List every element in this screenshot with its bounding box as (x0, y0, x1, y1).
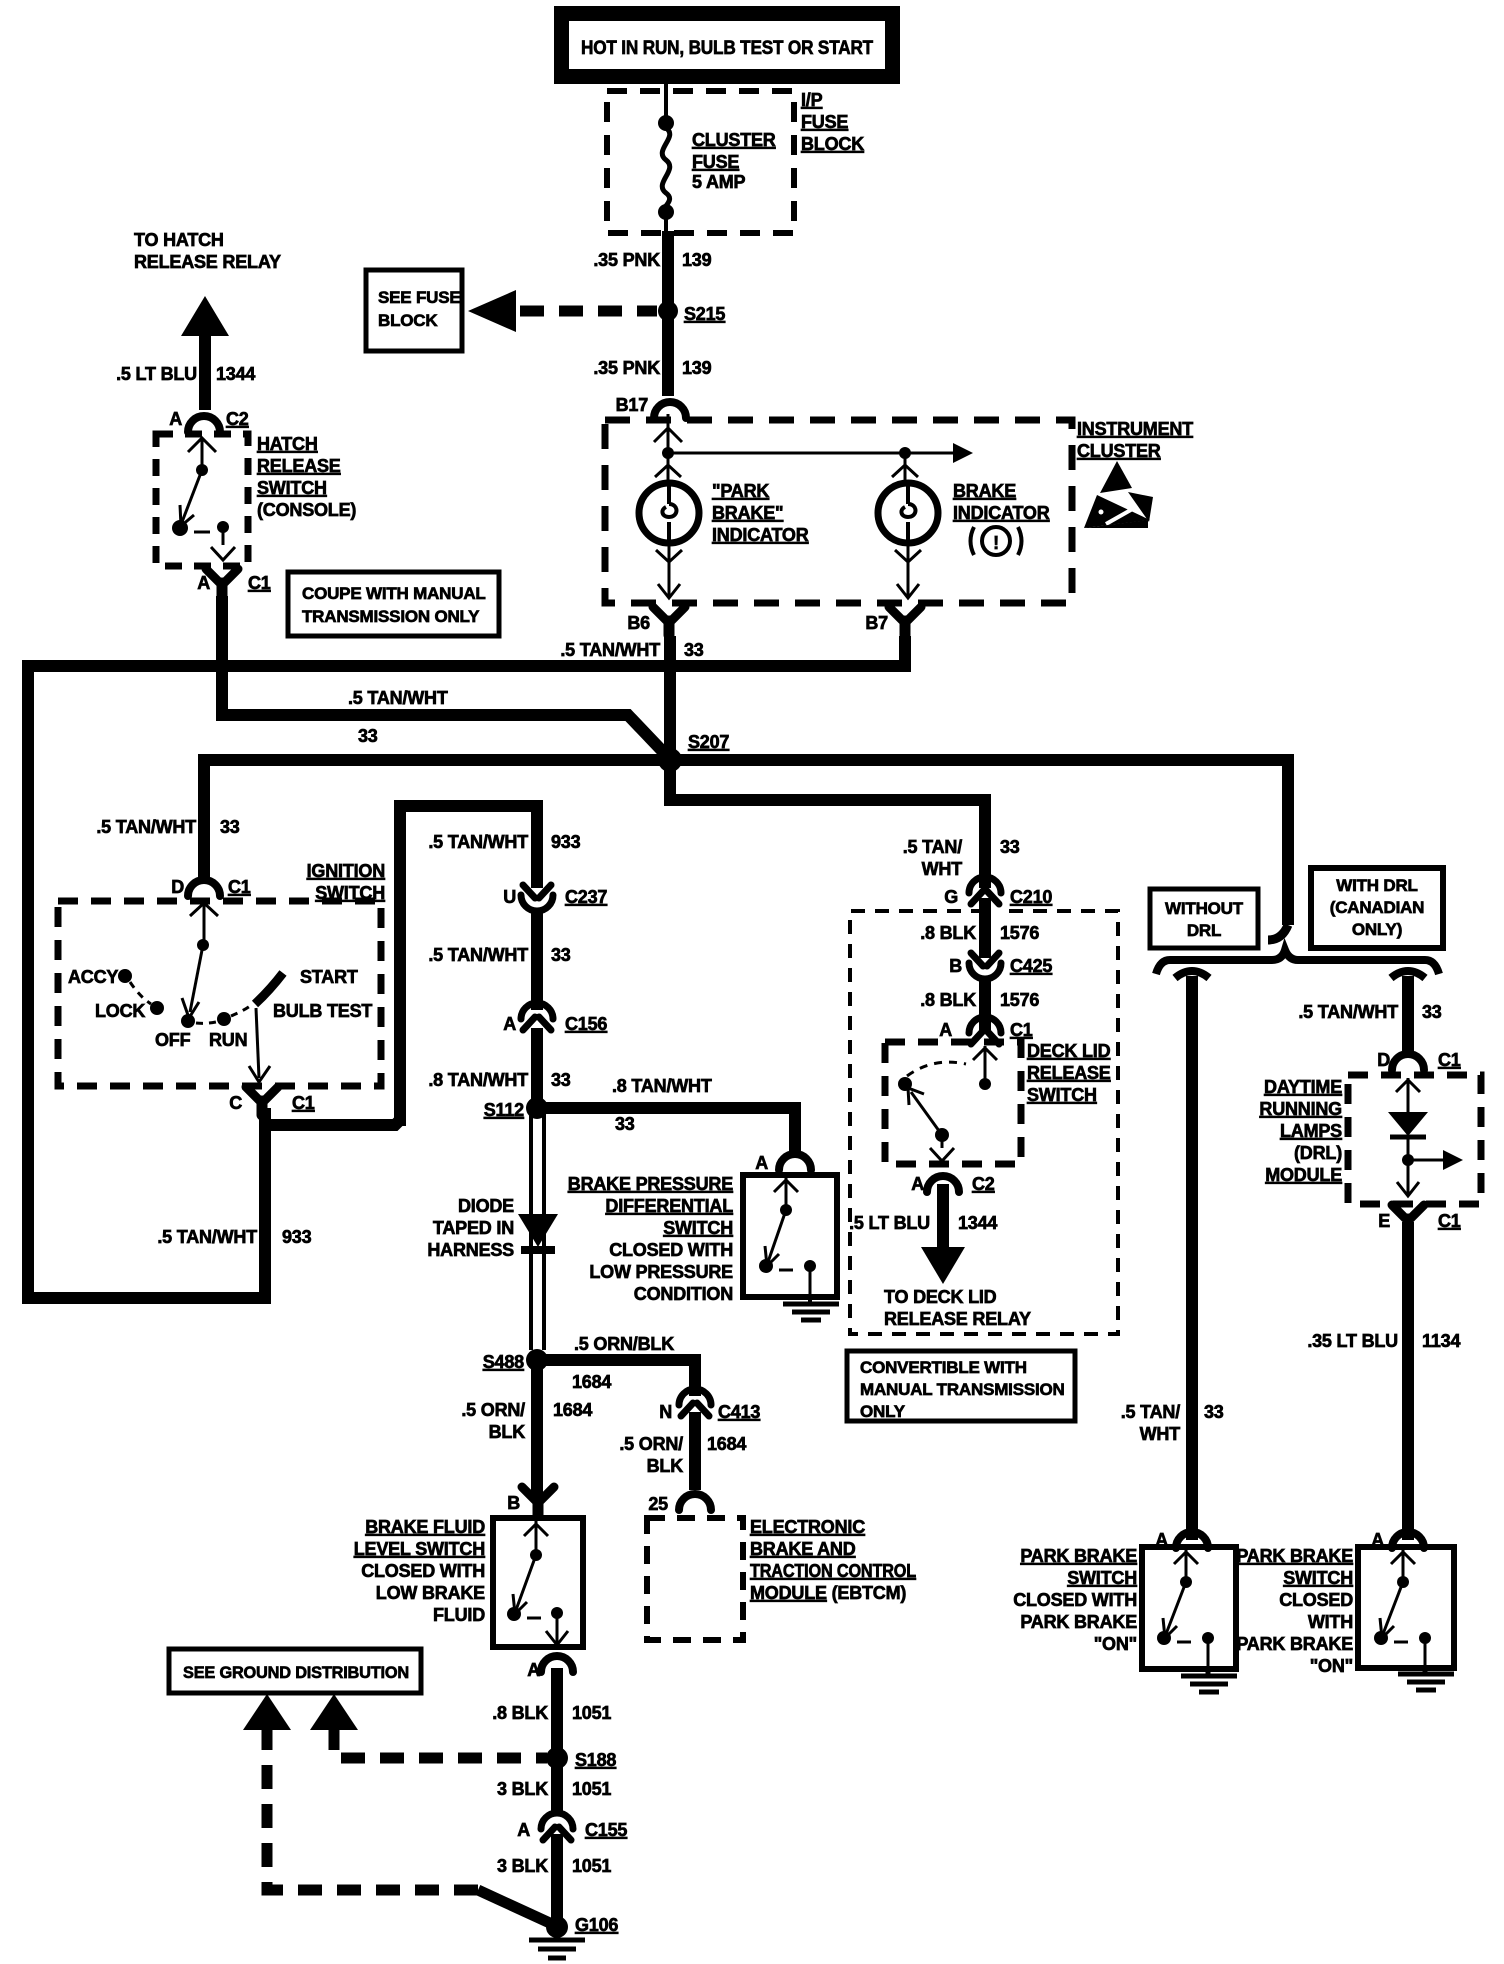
wire left loop down to ignition C (28, 660, 265, 1298)
svg-text:"ON": "ON" (1094, 1634, 1137, 1654)
label "PARK BRAKE" INDICATOR (712, 481, 809, 545)
label ELECTRONIC BRAKE AND TRACTION CONTROL MODULE (EBTCM) (750, 1517, 916, 1603)
svg-text:SEE FUSE: SEE FUSE (378, 288, 460, 307)
connector C C1 ignition (229, 1087, 315, 1115)
svg-text:C1: C1 (292, 1093, 315, 1113)
svg-text:S112: S112 (484, 1100, 524, 1120)
instrument cluster dashed box (605, 420, 1072, 603)
svg-text:C210: C210 (1010, 887, 1052, 907)
connector N C413 (659, 1389, 760, 1422)
wire hatch to S207 horizontal (222, 715, 668, 757)
label .35 PNK 139 lower (593, 358, 711, 378)
label I/P FUSE BLOCK (801, 90, 864, 154)
svg-text:C2: C2 (226, 409, 249, 429)
svg-text:.5 ORN/BLK: .5 ORN/BLK (574, 1334, 674, 1354)
svg-text:A: A (939, 1020, 952, 1040)
box brake fluid level switch (493, 1518, 583, 1647)
wire S488 down to brake fluid switch (531, 1366, 543, 1498)
connector A brake fluid switch (527, 1656, 573, 1680)
DRL module dashed box (1348, 1075, 1481, 1204)
svg-text:C2: C2 (972, 1174, 995, 1194)
connector C1 hatch (197, 569, 271, 597)
box COUPE WITH MANUAL TRANSMISSION ONLY (288, 572, 499, 636)
convertible section dashed outline (850, 911, 1118, 1334)
dashed wire left arrow to G106 (267, 1726, 480, 1890)
splice S215 (658, 301, 678, 321)
svg-text:G106: G106 (575, 1915, 618, 1935)
node junction at park brake bulb (662, 447, 674, 459)
svg-text:!: ! (993, 533, 999, 553)
svg-text:C1: C1 (1010, 1020, 1033, 1040)
svg-text:N: N (659, 1402, 672, 1422)
svg-text:BLOCK: BLOCK (378, 311, 438, 330)
svg-text:(CONSOLE): (CONSOLE) (257, 500, 356, 520)
svg-text:DAYTIME: DAYTIME (1264, 1077, 1342, 1097)
ground G106 (546, 1916, 568, 1938)
label .5 ORN/ BLK 1684 right (619, 1434, 746, 1476)
hatch release switch contacts (172, 438, 235, 560)
splice S207 (658, 748, 682, 772)
svg-text:1684: 1684 (553, 1400, 592, 1420)
svg-text:.5 TAN/: .5 TAN/ (1121, 1402, 1180, 1422)
svg-text:TO HATCH: TO HATCH (134, 230, 224, 250)
svg-text:139: 139 (682, 358, 712, 378)
splice S488 (526, 1349, 548, 1371)
svg-text:CONVERTIBLE WITH: CONVERTIBLE WITH (860, 1358, 1027, 1377)
ground symbol park brake right (1398, 1667, 1454, 1690)
dashed wire S215 to fuse block arrow (520, 306, 657, 317)
svg-text:33: 33 (615, 1114, 635, 1134)
svg-text:I/P: I/P (801, 90, 823, 110)
svg-text:.5 ORN/: .5 ORN/ (619, 1434, 683, 1454)
svg-text:CLUSTER: CLUSTER (1077, 441, 1161, 461)
splice S188 (546, 1747, 568, 1769)
svg-text:.5 TAN/WHT: .5 TAN/WHT (157, 1227, 257, 1247)
svg-text:WHT: WHT (922, 859, 963, 879)
wire S207 to ignition D (204, 760, 663, 880)
svg-text:SWITCH: SWITCH (1067, 1568, 1137, 1588)
ground symbol brake pressure switch (783, 1297, 839, 1320)
svg-text:WHT: WHT (1140, 1424, 1181, 1444)
svg-text:SEE GROUND DISTRIBUTION: SEE GROUND DISTRIBUTION (183, 1663, 409, 1682)
deck lid release switch dashed box (885, 1042, 1021, 1164)
connector D C1 DRL (1377, 1050, 1461, 1070)
svg-text:S188: S188 (575, 1750, 616, 1770)
svg-text:.5 TAN/: .5 TAN/ (903, 837, 962, 857)
svg-text:CLOSED WITH: CLOSED WITH (361, 1561, 485, 1581)
box WITHOUT DRL (1150, 889, 1258, 948)
svg-text:1134: 1134 (1422, 1331, 1460, 1351)
wire S207 to right branch (677, 760, 1288, 925)
connector B brake fluid switch (507, 1487, 554, 1515)
svg-text:S488: S488 (483, 1352, 524, 1372)
ESD symbol (1084, 461, 1153, 528)
label .5 TAN/WHT 33 (428, 945, 570, 965)
svg-text:RELEASE RELAY: RELEASE RELAY (134, 252, 281, 272)
svg-text:A: A (755, 1153, 768, 1173)
svg-text:33: 33 (1204, 1402, 1224, 1422)
svg-text:DIFFERENTIAL: DIFFERENTIAL (605, 1196, 733, 1216)
svg-text:CONDITION: CONDITION (634, 1284, 733, 1304)
connector C2 hatch (169, 409, 249, 432)
svg-text:.8 BLK: .8 BLK (920, 990, 976, 1010)
wire C156 to S112 (531, 1028, 543, 1108)
park brake switch left contacts (1157, 1550, 1214, 1668)
svg-text:33: 33 (220, 817, 240, 837)
box brake pressure differential switch (743, 1175, 837, 1297)
svg-text:33: 33 (1000, 837, 1020, 857)
label .5 TAN/WHT 933 bottom loop (157, 1227, 311, 1247)
diode taped in harness wire (518, 1113, 558, 1350)
label .5 TAN/WHT 33 wire2 (348, 688, 448, 746)
svg-text:DRL: DRL (1187, 921, 1221, 940)
svg-text:HARNESS: HARNESS (427, 1240, 514, 1260)
svg-text:C1: C1 (1438, 1050, 1461, 1070)
label IGNITION SWITCH (307, 861, 385, 903)
svg-text:B: B (949, 956, 962, 976)
splice S112 (526, 1097, 548, 1119)
connector B7 (865, 607, 921, 635)
svg-text:WITH DRL: WITH DRL (1336, 876, 1418, 895)
label .5 TAN/WHT 933 riser (428, 832, 580, 852)
cluster fuse symbol (658, 84, 674, 233)
svg-text:BULB TEST: BULB TEST (273, 1001, 372, 1021)
svg-text:C155: C155 (585, 1820, 627, 1840)
svg-text:PARK BRAKE: PARK BRAKE (1020, 1612, 1137, 1632)
ground symbol park brake left (1181, 1669, 1237, 1692)
svg-text:C156: C156 (565, 1014, 607, 1034)
branch bus bar with brace (1156, 950, 1439, 978)
internal bus wire with arrow (668, 452, 955, 455)
svg-text:BRAKE": BRAKE" (712, 503, 783, 523)
wire C237 to C156 (531, 912, 543, 1010)
svg-text:A: A (503, 1014, 516, 1034)
svg-text:S207: S207 (688, 732, 729, 752)
label INSTRUMENT CLUSTER (1077, 419, 1193, 461)
svg-text:"PARK: "PARK (712, 481, 769, 501)
svg-text:1344: 1344 (216, 364, 255, 384)
svg-text:TRANSMISSION ONLY: TRANSMISSION ONLY (302, 607, 480, 626)
svg-text:C1: C1 (228, 877, 251, 897)
hook at branch entry (1268, 925, 1288, 940)
box park brake switch left (1142, 1547, 1236, 1669)
svg-text:RUNNING: RUNNING (1259, 1099, 1342, 1119)
svg-text:1684: 1684 (707, 1434, 746, 1454)
svg-text:SWITCH: SWITCH (663, 1218, 733, 1238)
svg-text:1576: 1576 (1000, 990, 1039, 1010)
box SEE FUSE BLOCK (366, 270, 462, 351)
wire S207 branch down to C210 (670, 760, 985, 888)
svg-text:INDICATOR: INDICATOR (953, 503, 1050, 523)
svg-text:RELEASE: RELEASE (1027, 1063, 1111, 1083)
arrow to hatch release relay (181, 296, 229, 410)
wire fuse to S215 (662, 231, 674, 312)
connector G C210 (944, 877, 1052, 907)
svg-text:TAPED IN: TAPED IN (433, 1218, 514, 1238)
label DECK LID RELEASE SWITCH (1027, 1041, 1111, 1105)
svg-text:.5 TAN/WHT: .5 TAN/WHT (560, 640, 660, 660)
svg-text:C413: C413 (718, 1402, 760, 1422)
svg-text:C: C (229, 1093, 242, 1113)
wire E C1 down to park brake right (1402, 1222, 1414, 1540)
label PARK BRAKE SWITCH CLOSED WITH PARK BRAKE ON right (1236, 1546, 1353, 1676)
svg-text:B7: B7 (865, 613, 888, 633)
svg-text:.8 BLK: .8 BLK (492, 1703, 548, 1723)
connector B C425 (949, 953, 1052, 979)
svg-text:HOT IN RUN, BULB TEST OR START: HOT IN RUN, BULB TEST OR START (581, 38, 874, 59)
wire hatch C1 down (216, 596, 228, 721)
svg-text:(DRL): (DRL) (1294, 1143, 1342, 1163)
svg-text:CLOSED: CLOSED (1279, 1590, 1353, 1610)
terminal chevron at B17 inside cluster (654, 428, 682, 442)
label .5 LT BLU 1344 (116, 364, 255, 384)
label CLUSTER FUSE 5 AMP (692, 130, 776, 192)
svg-text:COUPE WITH MANUAL: COUPE WITH MANUAL (302, 584, 486, 603)
box park brake switch right (1358, 1547, 1454, 1668)
svg-text:933: 933 (282, 1227, 312, 1247)
svg-text:.5 LT BLU: .5 LT BLU (849, 1213, 930, 1233)
label BRAKE PRESSURE DIFFERENTIAL SWITCH CLOSED WITH LOW PRESSURE CONDITION (568, 1174, 733, 1304)
ignition switch rotary contacts (118, 903, 283, 1082)
svg-text:MANUAL TRANSMISSION: MANUAL TRANSMISSION (860, 1380, 1065, 1399)
brake indicator bulb lamp (878, 453, 938, 598)
wire C413 to EBTCM (689, 1412, 701, 1490)
svg-text:.35 LT BLU: .35 LT BLU (1307, 1331, 1398, 1351)
svg-text:933: 933 (551, 832, 581, 852)
wire C210 to C425 (979, 898, 991, 958)
label .35 LT BLU 1134 (1307, 1331, 1460, 1351)
label .5 LT BLU 1344 deck (849, 1213, 997, 1233)
svg-text:.5 ORN/: .5 ORN/ (461, 1400, 525, 1420)
svg-text:RELEASE: RELEASE (257, 456, 341, 476)
park brake bulb lamp (639, 453, 699, 598)
svg-text:B: B (507, 1493, 520, 1513)
arrow to see fuse block (468, 290, 516, 332)
svg-text:33: 33 (358, 726, 378, 746)
park brake switch right contacts (1374, 1550, 1431, 1666)
ground distribution arrow left (243, 1694, 291, 1730)
svg-text:PARK BRAKE: PARK BRAKE (1236, 1634, 1353, 1654)
svg-text:1051: 1051 (572, 1703, 611, 1723)
svg-text:SWITCH: SWITCH (257, 478, 327, 498)
brake warning icon ((!)) (971, 527, 1022, 555)
svg-text:FUSE: FUSE (692, 152, 739, 172)
svg-text:LOCK: LOCK (95, 1001, 145, 1021)
svg-text:ELECTRONIC: ELECTRONIC (750, 1517, 865, 1537)
connector A C156 (503, 1003, 607, 1034)
wire diagonal to G106 (478, 1890, 552, 1924)
label 3 BLK 1051 (497, 1779, 611, 1799)
connector A C2 deck lid (911, 1174, 995, 1194)
svg-text:WITHOUT: WITHOUT (1165, 899, 1244, 918)
label .5 ORN/BLK 1684 (572, 1334, 674, 1392)
svg-text:3 BLK: 3 BLK (497, 1856, 548, 1876)
svg-text:DIODE: DIODE (458, 1196, 514, 1216)
connector E C1 DRL (1378, 1205, 1461, 1233)
svg-text:TRACTION CONTROL: TRACTION CONTROL (750, 1561, 916, 1581)
wire ignition C elbow to U riser (265, 1108, 400, 1125)
connector B6 (627, 607, 685, 635)
svg-text:.8 TAN/WHT: .8 TAN/WHT (612, 1076, 712, 1096)
connector D C1 ignition (171, 877, 251, 897)
svg-text:.35 PNK: .35 PNK (593, 250, 660, 270)
label BRAKE INDICATOR (953, 481, 1050, 523)
svg-text:25: 25 (648, 1494, 668, 1514)
svg-text:.5 TAN/WHT: .5 TAN/WHT (348, 688, 448, 708)
brake pressure switch contacts (759, 1178, 816, 1296)
svg-text:1051: 1051 (572, 1779, 611, 1799)
svg-text:LAMPS: LAMPS (1280, 1121, 1342, 1141)
svg-text:C1: C1 (248, 573, 271, 593)
svg-text:RUN: RUN (209, 1030, 247, 1050)
wire with-DRL leg down to D C1 (1402, 976, 1414, 1056)
svg-text:139: 139 (682, 250, 712, 270)
svg-text:LOW PRESSURE: LOW PRESSURE (589, 1262, 733, 1282)
label .5 ORN/ BLK 1684 left (461, 1400, 592, 1442)
svg-text:A: A (911, 1174, 924, 1194)
label BRAKE FLUID LEVEL SWITCH CLOSED WITH LOW BRAKE FLUID (354, 1517, 485, 1625)
svg-text:33: 33 (1422, 1002, 1442, 1022)
svg-text:C425: C425 (1010, 956, 1052, 976)
label PARK BRAKE SWITCH CLOSED WITH PARK BRAKE ON left (1013, 1546, 1137, 1654)
connector 25 EBTCM (648, 1494, 711, 1514)
svg-text:5 AMP: 5 AMP (692, 172, 746, 192)
wire B17 into cluster (667, 414, 670, 452)
label .5 TAN/WHT 33 wire3 (96, 817, 239, 837)
wire S188 to C155 (551, 1758, 563, 1816)
svg-text:BLK: BLK (489, 1422, 526, 1442)
svg-text:.8 TAN/WHT: .8 TAN/WHT (428, 1070, 528, 1090)
svg-text:ONLY): ONLY) (1352, 920, 1402, 939)
svg-text:SWITCH: SWITCH (1283, 1568, 1353, 1588)
svg-text:1684: 1684 (572, 1372, 611, 1392)
svg-text:ACCY: ACCY (68, 967, 118, 987)
svg-text:A: A (517, 1820, 530, 1840)
EBTCM dashed box (647, 1518, 743, 1640)
label TO HATCH RELEASE RELAY (134, 230, 281, 272)
svg-text:SWITCH: SWITCH (1027, 1085, 1097, 1105)
svg-text:MODULE (EBTCM): MODULE (EBTCM) (750, 1583, 906, 1603)
connector B17 (616, 395, 686, 418)
svg-text:BLK: BLK (647, 1456, 684, 1476)
I/P fuse block dashed box (607, 91, 794, 233)
svg-text:TO DECK LID: TO DECK LID (884, 1287, 997, 1307)
svg-text:"ON": "ON" (1310, 1656, 1353, 1676)
svg-text:WITH: WITH (1308, 1612, 1353, 1632)
svg-text:CLOSED WITH: CLOSED WITH (609, 1240, 733, 1260)
label 3 BLK 1051 lower (497, 1856, 611, 1876)
svg-text:.5 TAN/WHT: .5 TAN/WHT (1298, 1002, 1398, 1022)
deck lid switch contacts (898, 1046, 997, 1161)
svg-text:INDICATOR: INDICATOR (712, 525, 809, 545)
svg-text:PARK BRAKE: PARK BRAKE (1236, 1546, 1353, 1566)
svg-text:E: E (1378, 1211, 1390, 1231)
wire A to S188 (551, 1668, 563, 1758)
wire C425 to deck lid C1 (979, 980, 991, 1030)
svg-text:3 BLK: 3 BLK (497, 1779, 548, 1799)
DRL module diode circuit (1388, 1078, 1463, 1196)
svg-text:1051: 1051 (572, 1856, 611, 1876)
wire top horizontal B7 branch (28, 636, 905, 666)
svg-text:LOW BRAKE: LOW BRAKE (376, 1583, 485, 1603)
svg-text:S215: S215 (684, 304, 725, 324)
box CONVERTIBLE WITH MANUAL TRANSMISSION ONLY (847, 1351, 1075, 1421)
svg-text:RELEASE RELAY: RELEASE RELAY (884, 1309, 1031, 1329)
svg-text:IGNITION: IGNITION (307, 861, 385, 881)
svg-text:CLUSTER: CLUSTER (692, 130, 776, 150)
label .8 TAN/WHT 33 (428, 1070, 570, 1090)
svg-text:ONLY: ONLY (860, 1402, 906, 1421)
hatch release switch dashed box (156, 434, 248, 566)
svg-text:D: D (171, 877, 184, 897)
brake fluid switch contacts (507, 1521, 568, 1645)
svg-text:C1: C1 (1438, 1211, 1461, 1231)
connector A brake pressure switch (755, 1153, 811, 1173)
connector A park brake right (1371, 1530, 1424, 1550)
svg-text:DECK LID: DECK LID (1027, 1041, 1111, 1061)
label DAYTIME RUNNING LAMPS (DRL) MODULE (1259, 1077, 1342, 1185)
wire S112 to brake pressure switch (545, 1108, 795, 1155)
label .8 BLK 1051 (492, 1703, 611, 1723)
svg-text:A: A (169, 409, 182, 429)
connector A park brake left (1155, 1530, 1208, 1550)
wire C155 to G106 (551, 1834, 563, 1926)
svg-text:B6: B6 (627, 613, 650, 633)
svg-text:BLOCK: BLOCK (801, 134, 864, 154)
svg-text:MODULE: MODULE (1265, 1165, 1342, 1185)
svg-text:33: 33 (684, 640, 704, 660)
connector U C237 (503, 885, 607, 911)
svg-text:LEVEL SWITCH: LEVEL SWITCH (354, 1539, 485, 1559)
svg-text:1576: 1576 (1000, 923, 1039, 943)
wire and arrow to deck lid release relay (921, 1184, 965, 1284)
svg-text:.5 TAN/WHT: .5 TAN/WHT (428, 945, 528, 965)
label .5 TAN/ WHT 33 left leg (1121, 1402, 1224, 1444)
svg-text:START: START (300, 967, 358, 987)
label .5 TAN/ WHT 33 to C210 (903, 837, 1020, 879)
svg-text:B17: B17 (616, 395, 649, 415)
svg-text:OFF: OFF (155, 1030, 191, 1050)
power feed box HOT IN RUN, BULB TEST OR START (554, 6, 900, 84)
label TO DECK LID RELEASE RELAY (884, 1287, 1031, 1329)
wire B6 down to S207 (664, 636, 676, 760)
connector A C1 deck lid (939, 1017, 1033, 1044)
label .8 TAN/WHT 33 branch (612, 1076, 712, 1134)
svg-text:FLUID: FLUID (433, 1605, 485, 1625)
svg-text:.5 TAN/WHT: .5 TAN/WHT (96, 817, 196, 837)
svg-text:(CANADIAN: (CANADIAN (1330, 898, 1425, 917)
svg-text:PARK BRAKE: PARK BRAKE (1020, 1546, 1137, 1566)
label .8 BLK 1576 lower (920, 990, 1039, 1010)
svg-text:FUSE: FUSE (801, 112, 848, 132)
box WITH DRL (CANADIAN ONLY) (1311, 868, 1443, 948)
wire without-DRL leg down to park brake switch (1186, 976, 1198, 1540)
svg-text:1344: 1344 (958, 1213, 997, 1233)
svg-text:C237: C237 (565, 887, 607, 907)
ignition switch dashed box (58, 901, 381, 1086)
svg-text:BRAKE FLUID: BRAKE FLUID (365, 1517, 485, 1537)
dashed wire right arrow to S188 (334, 1726, 547, 1758)
label .5 TAN/WHT 33 at B6 (560, 640, 703, 660)
wire S215 to B17 (662, 311, 674, 396)
label DIODE TAPED IN HARNESS (427, 1196, 514, 1260)
svg-text:.5 TAN/WHT: .5 TAN/WHT (428, 832, 528, 852)
svg-text:G: G (944, 887, 958, 907)
ground distribution arrow right (310, 1694, 358, 1730)
label HATCH RELEASE SWITCH (CONSOLE) (257, 434, 356, 520)
svg-text:.35 PNK: .35 PNK (593, 358, 660, 378)
svg-text:33: 33 (551, 1070, 571, 1090)
